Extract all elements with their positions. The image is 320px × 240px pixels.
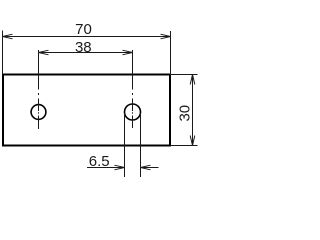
svg-text:6.5: 6.5 bbox=[89, 153, 110, 170]
svg-text:38: 38 bbox=[75, 39, 92, 56]
svg-text:70: 70 bbox=[75, 21, 92, 38]
svg-text:30: 30 bbox=[177, 105, 194, 122]
